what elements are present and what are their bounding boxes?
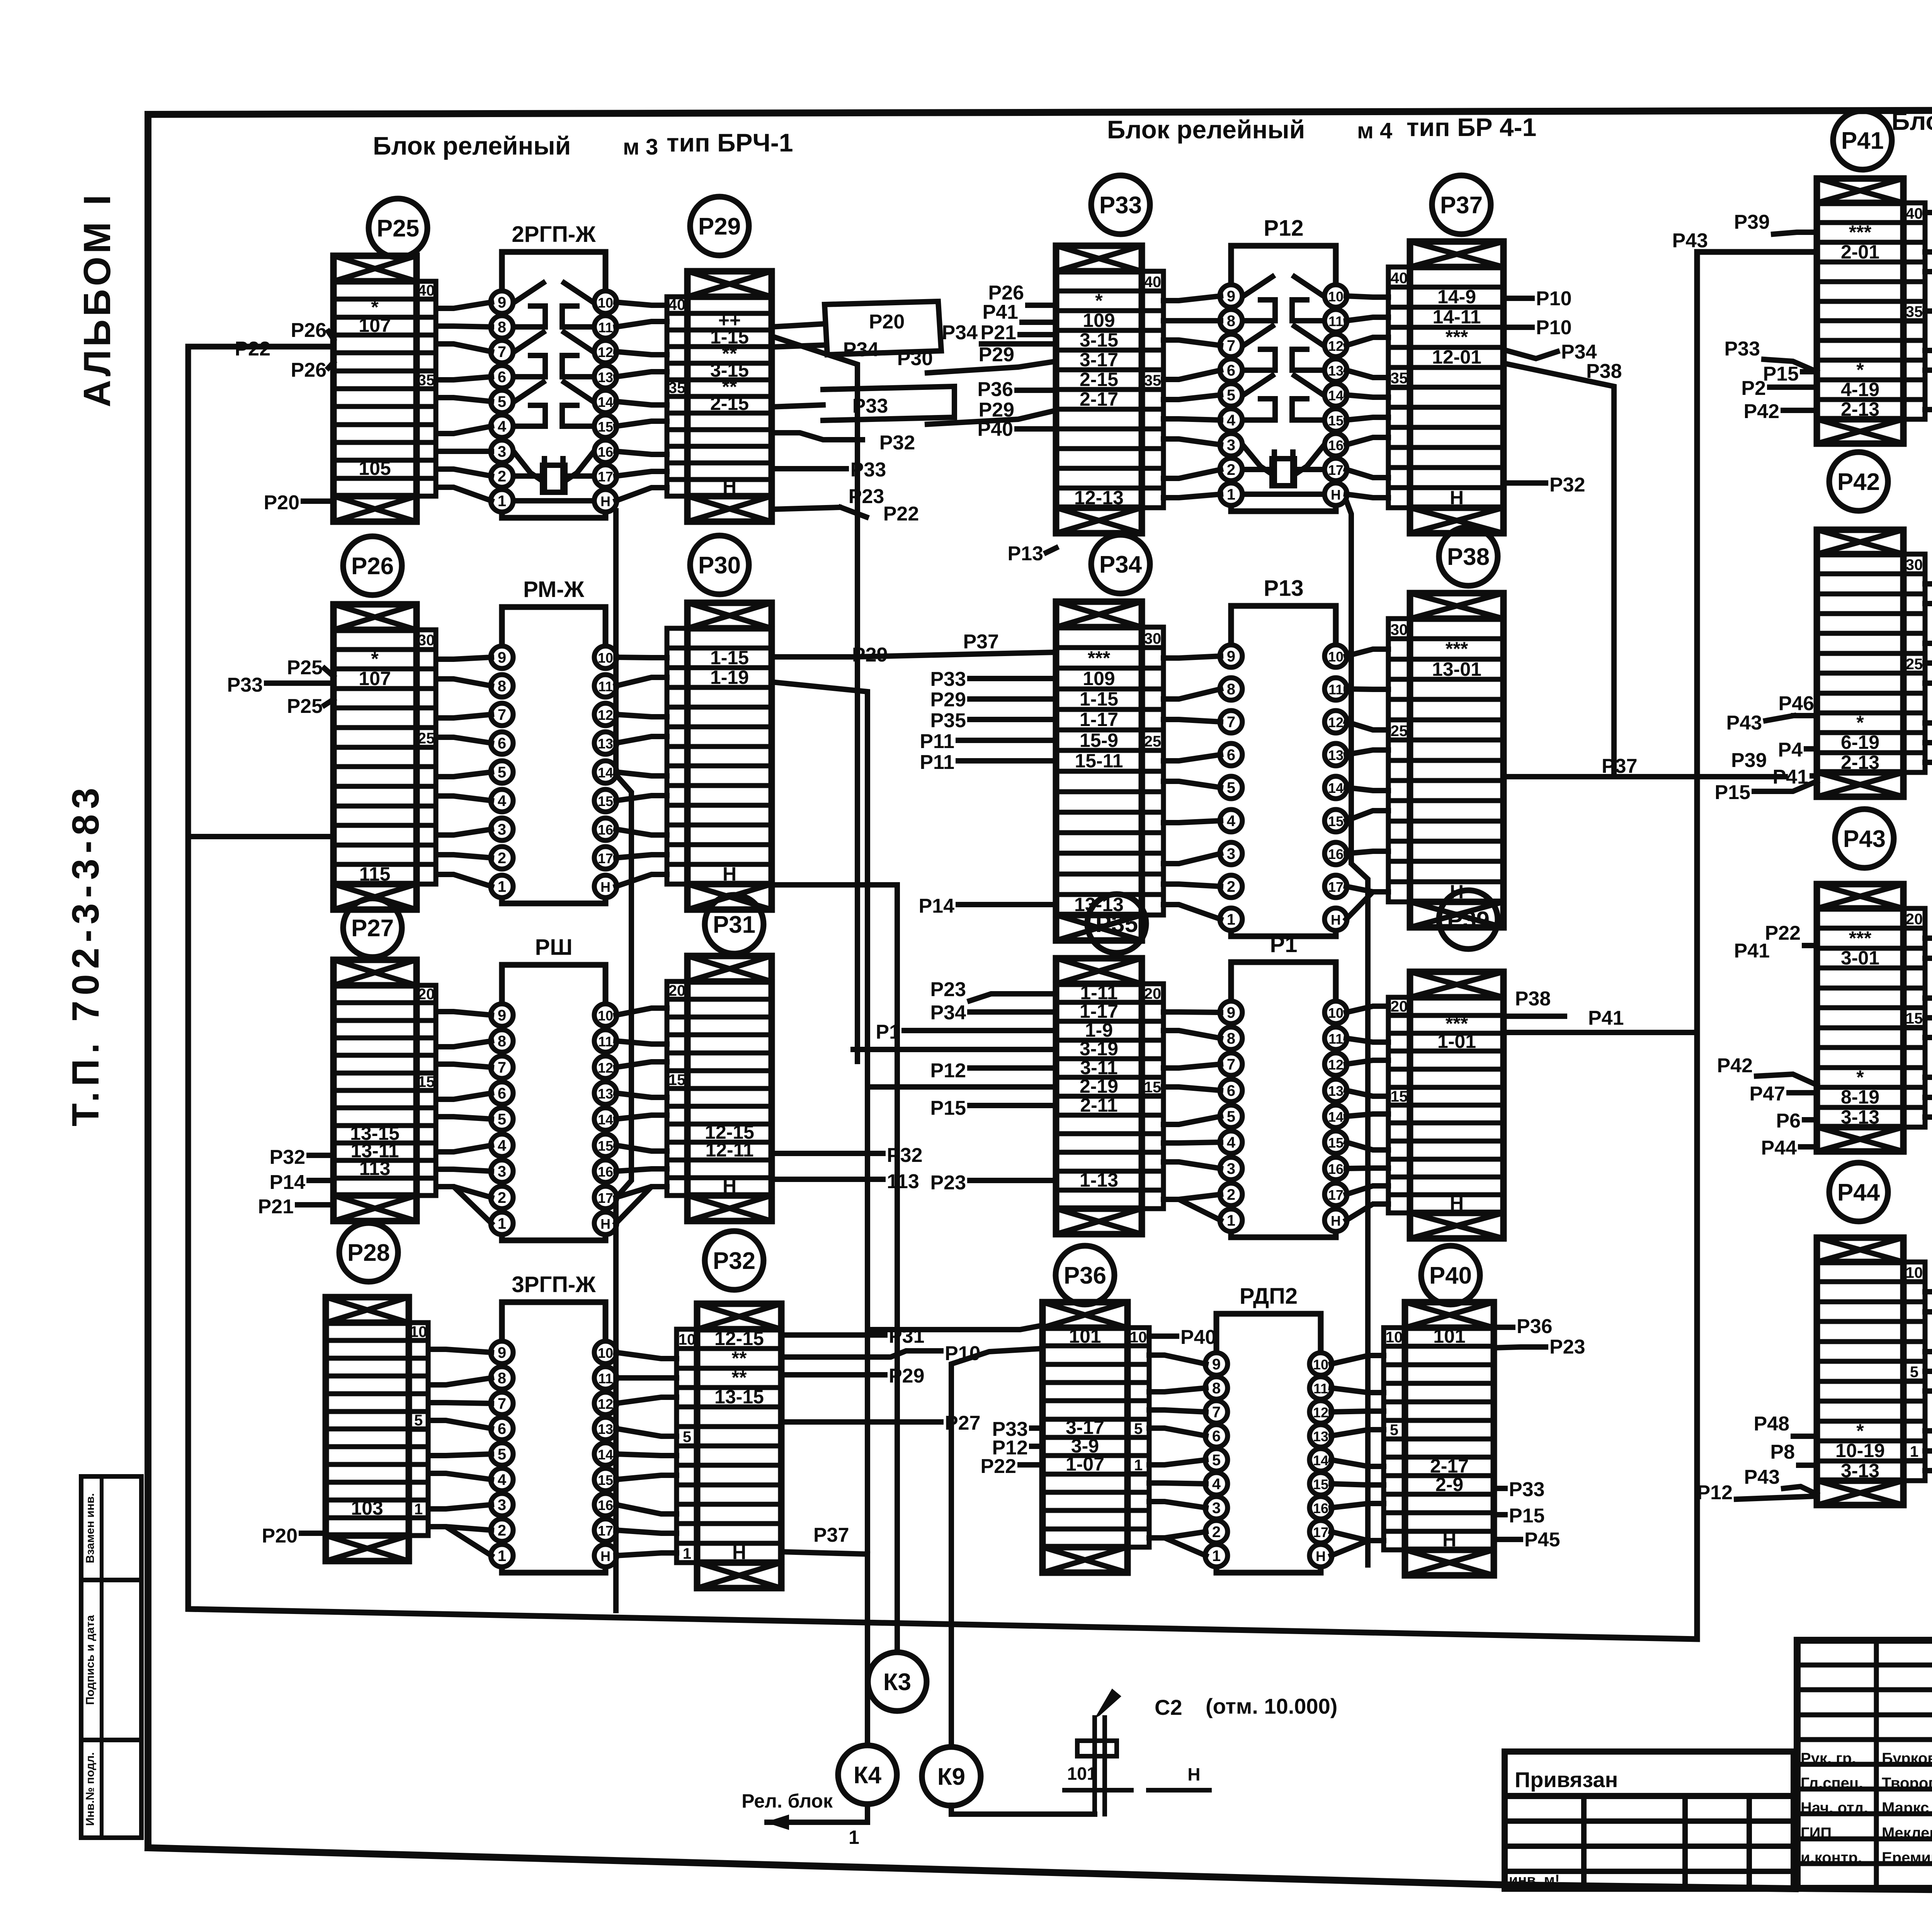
node P31 designator: [705, 895, 764, 954]
svg-text:и.контр.: и.контр.: [1801, 1849, 1862, 1866]
svg-text:15: 15: [1328, 813, 1344, 829]
svg-text:25: 25: [418, 730, 435, 747]
svg-text:14: 14: [1328, 1109, 1344, 1125]
node P30 designator: [690, 536, 749, 594]
svg-text:***: ***: [1088, 647, 1111, 669]
svg-text:11: 11: [598, 1371, 613, 1386]
node P38 designator: [1439, 527, 1498, 586]
wire riser v2 to K3: [895, 885, 900, 1652]
svg-text:1-07: 1-07: [1066, 1453, 1104, 1475]
svg-text:9: 9: [1227, 288, 1235, 305]
svg-text:12: 12: [1328, 714, 1344, 730]
wires P41 to Р2: [1925, 213, 1932, 462]
svg-text:9: 9: [1227, 648, 1235, 665]
svg-text:5: 5: [498, 393, 506, 410]
svg-text:14-9: 14-9: [1437, 286, 1476, 308]
svg-text:3: 3: [498, 1163, 506, 1180]
svg-text:14: 14: [598, 394, 613, 410]
wires РШ to P31: [616, 1008, 667, 1223]
svg-text:1-15: 1-15: [1080, 688, 1118, 710]
svg-text:3: 3: [498, 443, 506, 460]
svg-text:35: 35: [1144, 372, 1162, 389]
svg-text:113: 113: [359, 1158, 391, 1179]
terminal block P33: [1056, 246, 1163, 533]
svg-text:11: 11: [598, 320, 613, 335]
svg-text:Р43: Р43: [1744, 1466, 1780, 1488]
svg-text:10: 10: [1386, 1329, 1403, 1346]
node P43 designator: [1835, 809, 1894, 868]
svg-text:Р20: Р20: [262, 1525, 298, 1547]
terminal block P40: [1384, 1302, 1494, 1575]
svg-text:20: 20: [418, 986, 435, 1003]
svg-text:К9: К9: [937, 1764, 965, 1790]
svg-text:1-15: 1-15: [710, 647, 749, 668]
svg-text:2: 2: [498, 468, 506, 485]
svg-text:инв. м!: инв. м!: [1509, 1872, 1560, 1888]
svg-text:20: 20: [1391, 998, 1408, 1015]
svg-text:К4: К4: [854, 1762, 882, 1789]
svg-text:*: *: [1856, 1066, 1864, 1088]
svg-text:2-15: 2-15: [710, 393, 749, 414]
svg-text:9: 9: [498, 1344, 506, 1361]
svg-text:25: 25: [1144, 733, 1162, 750]
svg-text:40: 40: [1906, 205, 1923, 222]
svg-text:4: 4: [1227, 1134, 1236, 1151]
svg-text:Р42: Р42: [1837, 469, 1880, 495]
svg-text:Р43: Р43: [1843, 826, 1886, 852]
svg-text:103: 103: [351, 1497, 383, 1519]
svg-text:Р14: Р14: [918, 895, 954, 917]
svg-text:6: 6: [1227, 747, 1235, 764]
svg-text:10: 10: [1313, 1357, 1328, 1372]
svg-text:13-15: 13-15: [714, 1386, 764, 1408]
svg-text:9: 9: [498, 1007, 506, 1024]
node P27 designator: [343, 898, 402, 957]
svg-text:Н: Н: [1331, 1213, 1341, 1229]
svg-text:Р41: Р41: [1841, 128, 1884, 154]
right wire P37 P39 long: [1503, 749, 1785, 777]
relay Р12: [1220, 216, 1347, 511]
svg-text:5: 5: [1227, 387, 1235, 404]
svg-text:40: 40: [1144, 274, 1162, 291]
wires P44 to 1Р3: [1925, 1291, 1932, 1500]
svg-text:Р33: Р33: [1509, 1478, 1545, 1501]
svg-text:4: 4: [498, 793, 507, 810]
terminal block P26: [333, 604, 436, 910]
terminal block P37: [1388, 241, 1503, 533]
svg-text:12-13: 12-13: [1074, 487, 1124, 509]
svg-text:Привязан: Привязан: [1515, 1767, 1618, 1792]
svg-text:Рук. гр.: Рук. гр.: [1801, 1750, 1856, 1767]
svg-text:10: 10: [598, 1345, 613, 1361]
svg-text:4: 4: [498, 1137, 507, 1154]
wires Р1 to P39: [1346, 1006, 1388, 1220]
svg-text:13: 13: [598, 736, 613, 752]
svg-text:10: 10: [598, 650, 613, 666]
node P25 designator: [369, 199, 427, 257]
svg-text:м 3: м 3: [623, 134, 658, 160]
svg-text:13-01: 13-01: [1432, 658, 1481, 680]
svg-text:5: 5: [1227, 1108, 1235, 1125]
terminal block P25: [333, 256, 436, 522]
svg-text:14: 14: [598, 1447, 613, 1463]
svg-text:14: 14: [1328, 780, 1344, 796]
svg-text:11: 11: [1328, 1031, 1343, 1047]
svg-text:4-19: 4-19: [1841, 379, 1879, 400]
svg-text:Р10: Р10: [1536, 316, 1572, 339]
svg-text:10: 10: [598, 1008, 613, 1024]
svg-text:Р12: Р12: [1697, 1481, 1733, 1504]
svg-text:40: 40: [418, 282, 435, 299]
svg-text:Р32: Р32: [1549, 474, 1585, 496]
svg-text:Н: Н: [723, 476, 736, 497]
svg-text:20: 20: [1906, 911, 1923, 928]
svg-text:5: 5: [498, 1111, 506, 1128]
node connector K3: [868, 1652, 927, 1711]
svg-text:Р40: Р40: [1429, 1262, 1472, 1289]
svg-text:Р12: Р12: [1264, 216, 1303, 241]
terminal block P38: [1388, 593, 1503, 927]
node P26 designator: [343, 536, 402, 595]
svg-text:Р39: Р39: [1447, 907, 1490, 934]
svg-text:Р8: Р8: [1770, 1441, 1795, 1463]
title block main table: [1797, 1640, 1932, 1888]
svg-text:101: 101: [1067, 1764, 1097, 1784]
wire H bus section4: [1346, 500, 1368, 1565]
wire left bus loop: [188, 252, 1817, 1639]
svg-text:1: 1: [683, 1545, 691, 1562]
svg-text:8: 8: [498, 1370, 506, 1387]
svg-text:30: 30: [1391, 621, 1408, 638]
svg-text:3: 3: [1227, 437, 1235, 454]
svg-text:13: 13: [598, 1421, 613, 1437]
svg-text:6: 6: [498, 1420, 506, 1437]
svg-text:8-19: 8-19: [1841, 1086, 1879, 1108]
svg-text:Бурковский: Бурковский: [1882, 1750, 1932, 1767]
svg-text:8: 8: [498, 1033, 506, 1050]
svg-text:15: 15: [598, 793, 613, 809]
svg-text:5: 5: [498, 764, 506, 781]
svg-text:6: 6: [1227, 362, 1235, 379]
svg-text:Р23: Р23: [930, 978, 966, 1001]
wire riser K9 from P36: [951, 1349, 1043, 1747]
svg-text:Р36: Р36: [1064, 1262, 1106, 1289]
left stubs P23 P34 P1 P12 P15 P23: [876, 978, 1056, 1194]
svg-text:2: 2: [1227, 878, 1235, 895]
svg-text:Р25: Р25: [287, 656, 323, 679]
svg-text:7: 7: [1227, 337, 1235, 354]
svg-text:15-11: 15-11: [1075, 750, 1123, 772]
svg-text:1: 1: [414, 1501, 423, 1518]
svg-text:6: 6: [1212, 1428, 1221, 1445]
svg-text:1-01: 1-01: [1437, 1031, 1476, 1052]
svg-text:15: 15: [1328, 1135, 1344, 1151]
svg-text:Р22: Р22: [980, 1455, 1016, 1478]
svg-text:Р2: Р2: [1741, 377, 1766, 400]
svg-text:12: 12: [598, 1396, 613, 1412]
svg-text:Подпись и дата: Подпись и дата: [84, 1615, 97, 1705]
svg-text:5: 5: [414, 1412, 423, 1429]
svg-text:Н: Н: [723, 1175, 736, 1197]
svg-text:8: 8: [498, 319, 506, 336]
svg-text:14: 14: [1313, 1452, 1328, 1468]
svg-text:(отм. 10.000): (отм. 10.000): [1206, 1694, 1337, 1718]
svg-text:С2: С2: [1155, 1695, 1182, 1719]
sidebar stamp boxes: [81, 1476, 141, 1838]
svg-text:14: 14: [1328, 388, 1344, 403]
svg-text:3-17: 3-17: [1080, 349, 1118, 371]
svg-text:2-11: 2-11: [1080, 1094, 1117, 1116]
svg-text:8: 8: [1227, 313, 1235, 330]
svg-text:Т.П. 702-3-3-83: Т.П. 702-3-3-83: [64, 782, 107, 1126]
svg-text:Р46: Р46: [1778, 692, 1814, 715]
terminal block P42: [1817, 530, 1925, 797]
svg-text:12: 12: [598, 707, 613, 723]
node P28 designator: [339, 1223, 398, 1282]
svg-text:3-15: 3-15: [1080, 329, 1118, 351]
wires 3РГП-Ж to P32: [616, 1352, 677, 1556]
svg-text:Р44: Р44: [1761, 1137, 1797, 1159]
svg-text:7: 7: [1227, 1056, 1235, 1073]
svg-text:17: 17: [1328, 462, 1344, 478]
wire K9 to C2 mast: [951, 1805, 1095, 1814]
svg-text:13: 13: [1313, 1429, 1328, 1444]
svg-text:20: 20: [1144, 985, 1162, 1002]
svg-text:2: 2: [1227, 1186, 1235, 1203]
wire P38 from P37 block: [1503, 363, 1614, 777]
svg-text:Инв.№ подл.: Инв.№ подл.: [84, 1752, 97, 1826]
wires P34 to Р13: [1163, 656, 1221, 919]
svg-text:Р26: Р26: [351, 553, 394, 580]
svg-text:Р4: Р4: [1778, 739, 1803, 761]
relay Р13: [1220, 576, 1347, 936]
svg-text:Р40: Р40: [1180, 1326, 1216, 1349]
svg-text:Р38: Р38: [1515, 988, 1551, 1010]
svg-text:113: 113: [887, 1170, 919, 1193]
left stubs P39 P43 P33 P15 P2 P42: [1672, 211, 1817, 423]
svg-text:Р25: Р25: [377, 215, 419, 242]
wire H bus section3: [616, 511, 631, 1611]
svg-text:15: 15: [598, 1472, 613, 1488]
terminal block P43: [1817, 884, 1925, 1151]
svg-text:Н: Н: [600, 1548, 611, 1564]
svg-text:15-9: 15-9: [1080, 730, 1118, 751]
svg-text:11: 11: [1328, 682, 1343, 697]
svg-text:16: 16: [1328, 1161, 1344, 1177]
svg-text:Р20: Р20: [264, 492, 299, 514]
svg-text:8: 8: [1212, 1380, 1221, 1397]
svg-text:10: 10: [1130, 1329, 1147, 1346]
svg-text:107: 107: [359, 315, 391, 336]
node P44 designator: [1829, 1163, 1888, 1221]
svg-text:Р36: Р36: [1517, 1315, 1553, 1338]
svg-text:РМ-Ж: РМ-Ж: [523, 577, 585, 602]
svg-text:16: 16: [598, 1164, 613, 1180]
svg-text:5: 5: [1227, 779, 1235, 796]
right stubs P38 P41 and long wire: [1503, 988, 1697, 1032]
svg-text:10: 10: [1906, 1264, 1923, 1281]
svg-text:Р35: Р35: [930, 709, 966, 732]
svg-text:1: 1: [498, 493, 506, 510]
svg-text:Н: Н: [1450, 487, 1464, 509]
svg-text:Р14: Р14: [269, 1171, 305, 1194]
svg-text:2: 2: [498, 850, 506, 867]
svg-text:5: 5: [1390, 1422, 1398, 1439]
svg-text:40: 40: [668, 296, 686, 313]
svg-text:К3: К3: [883, 1669, 911, 1696]
wires P43 to Р3: [1925, 937, 1932, 1146]
wires 2РГП-Ж to P29: [616, 302, 667, 501]
wires P27 to РШ: [438, 1012, 492, 1223]
svg-text:9: 9: [1212, 1356, 1221, 1373]
svg-text:Н: Н: [1450, 1192, 1464, 1214]
node P35 designator: [1087, 894, 1146, 953]
svg-text:Н: Н: [1331, 487, 1341, 503]
svg-text:15: 15: [418, 1073, 435, 1090]
svg-text:1: 1: [1227, 486, 1235, 503]
svg-text:5: 5: [1212, 1452, 1221, 1469]
node P41 designator: [1833, 111, 1892, 170]
svg-text:1: 1: [1212, 1548, 1221, 1565]
svg-text:2-15: 2-15: [1080, 369, 1118, 390]
svg-text:Р15: Р15: [1763, 363, 1799, 385]
svg-text:11: 11: [598, 679, 613, 694]
svg-text:14: 14: [598, 1112, 613, 1128]
svg-text:10: 10: [1328, 289, 1344, 304]
terminal block P39: [1388, 972, 1503, 1238]
section header Блок релейный №4: [1107, 113, 1536, 144]
svg-text:15: 15: [1313, 1476, 1328, 1492]
svg-text:Р21: Р21: [980, 321, 1016, 344]
svg-text:1-19: 1-19: [710, 667, 749, 688]
svg-text:5: 5: [1910, 1364, 1918, 1381]
left stub P20: [262, 1525, 326, 1547]
svg-text:Р30: Р30: [897, 347, 933, 370]
right stub P29: [772, 644, 888, 666]
svg-text:12-01: 12-01: [1432, 346, 1481, 368]
terminal block P31: [667, 956, 772, 1221]
svg-text:35: 35: [668, 379, 686, 396]
svg-text:1: 1: [1227, 1212, 1235, 1229]
svg-text:Р15: Р15: [930, 1097, 966, 1119]
svg-text:30: 30: [418, 632, 435, 649]
svg-text:Р30: Р30: [698, 552, 741, 579]
svg-text:Р28: Р28: [347, 1240, 390, 1266]
wires Р12 to P37: [1346, 296, 1388, 498]
wires P28 to 3РГП-Ж: [430, 1349, 492, 1556]
wires РМ-Ж to P30: [616, 657, 667, 886]
svg-text:Р41: Р41: [1734, 940, 1770, 962]
svg-text:3: 3: [498, 821, 506, 838]
svg-text:3-13: 3-13: [1841, 1106, 1879, 1128]
svg-text:10: 10: [1328, 1005, 1344, 1021]
svg-text:Р42: Р42: [1743, 400, 1779, 423]
svg-text:Маркс: Маркс: [1882, 1799, 1929, 1816]
right stubs P32 113: [772, 1144, 923, 1193]
svg-text:10: 10: [1328, 649, 1344, 665]
svg-text:3-19: 3-19: [1080, 1038, 1118, 1060]
svg-text:Н: Н: [732, 1542, 746, 1563]
svg-text:101: 101: [1433, 1325, 1465, 1347]
svg-text:Еремина: Еремина: [1882, 1849, 1932, 1866]
svg-text:2: 2: [1227, 461, 1235, 478]
svg-text:Р29: Р29: [930, 689, 966, 711]
svg-text:Р11: Р11: [920, 730, 954, 753]
svg-text:Блок релейный: Блок релейный: [1891, 107, 1932, 135]
svg-text:6: 6: [498, 1085, 506, 1102]
terminal block P41: [1817, 179, 1925, 444]
svg-text:тип БР 4-1: тип БР 4-1: [1406, 113, 1536, 141]
svg-text:Р45: Р45: [1524, 1529, 1560, 1551]
svg-text:12-15: 12-15: [714, 1328, 764, 1349]
svg-text:13: 13: [1328, 747, 1344, 763]
svg-text:Р32: Р32: [713, 1248, 755, 1274]
svg-text:14-11: 14-11: [1432, 306, 1481, 328]
svg-text:2-19: 2-19: [1080, 1075, 1118, 1097]
svg-text:Н: Н: [600, 493, 611, 509]
svg-text:1: 1: [1134, 1457, 1143, 1474]
node P33 designator: [1091, 175, 1150, 234]
svg-text:12: 12: [1313, 1405, 1328, 1420]
svg-text:Р20: Р20: [869, 311, 905, 333]
svg-text:16: 16: [1328, 846, 1344, 862]
svg-text:1: 1: [498, 1548, 506, 1565]
node P36 designator: [1056, 1246, 1114, 1304]
svg-text:16: 16: [1328, 437, 1344, 453]
svg-text:Р48: Р48: [1753, 1413, 1789, 1435]
svg-text:4: 4: [1212, 1476, 1221, 1493]
svg-text:3: 3: [1227, 845, 1235, 862]
node P32 designator: [705, 1231, 764, 1290]
svg-text:Р29: Р29: [698, 213, 741, 240]
wires P26 to РМ-Ж: [438, 657, 492, 886]
left stubs P46 P43 P4 P41 P15: [1714, 692, 1817, 804]
svg-text:*: *: [1856, 1420, 1864, 1442]
svg-text:**: **: [732, 1347, 747, 1369]
svg-text:***: ***: [1849, 927, 1872, 949]
terminal block P29: [667, 271, 772, 522]
node P39 designator: [1439, 890, 1498, 949]
wire left branch to P26: [189, 834, 331, 839]
svg-text:8: 8: [1227, 681, 1235, 698]
svg-text:Н: Н: [1442, 1529, 1456, 1551]
svg-text:11: 11: [1328, 313, 1343, 329]
svg-text:4: 4: [498, 418, 507, 435]
svg-text:15: 15: [598, 419, 613, 435]
svg-text:Р11: Р11: [920, 751, 954, 774]
svg-text:15: 15: [668, 1071, 686, 1088]
wires P35 to Р1: [1163, 1012, 1221, 1220]
svg-text:Р33: Р33: [1724, 338, 1760, 360]
svg-text:25: 25: [1906, 656, 1923, 673]
terminal block P28: [326, 1297, 428, 1561]
svg-text:РШ: РШ: [535, 935, 573, 960]
svg-text:17: 17: [598, 850, 613, 866]
wire Рел.блок arrow from K4: [742, 1790, 867, 1848]
svg-text:Р41: Р41: [982, 301, 1018, 323]
left stubs P32 P14 P21: [258, 1146, 333, 1218]
svg-text:7: 7: [498, 1395, 506, 1412]
svg-text:Р34: Р34: [1099, 551, 1142, 578]
wires P33 to Р12: [1163, 296, 1221, 498]
svg-text:Гл.спец.: Гл.спец.: [1801, 1775, 1863, 1792]
svg-text:Р25: Р25: [287, 695, 323, 718]
svg-text:Р33: Р33: [1099, 192, 1142, 219]
wire riser v1a from P29: [772, 336, 857, 1061]
svg-text:Р36: Р36: [977, 378, 1013, 401]
svg-text:Р34: Р34: [942, 321, 978, 344]
section header Блок релейный №3: [373, 128, 793, 160]
